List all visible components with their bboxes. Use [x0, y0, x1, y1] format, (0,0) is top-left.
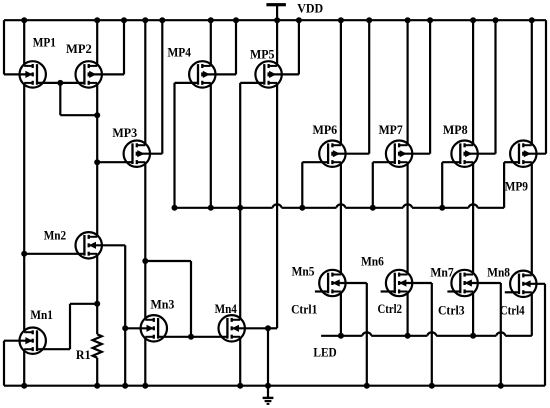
wire MP4 bulk to top rail — [203, 20, 236, 74]
wire MP5 bulk to top rail — [270, 20, 299, 74]
wire MP8 drain down to Mn7 drain — [472, 162, 474, 274]
svg-text:MP7: MP7 — [379, 123, 403, 137]
wire Mn4 bulk node to ground rail — [267, 328, 269, 385]
node Mn1 source on rail — [21, 383, 27, 389]
transistor Mn1 — [20, 328, 46, 354]
wire VDD top rail — [4, 19, 546, 21]
transistor Mn5 — [319, 270, 345, 296]
wire MP8 source to top rail — [472, 20, 474, 145]
transistor Mn2 — [76, 232, 102, 258]
node MP8 source on rail — [470, 17, 476, 23]
node MP3 gate tap — [94, 159, 100, 165]
svg-text:MP6: MP6 — [313, 123, 338, 137]
wire Mn1 gate to Mn2 source node — [37, 304, 97, 349]
node Mn2 gate tap — [21, 251, 27, 257]
svg-text:MP1: MP1 — [33, 36, 56, 50]
wire MP3 gate line — [97, 161, 132, 163]
wire Mn2 bulk down to bottom rail — [90, 245, 126, 385]
wire MP3 bulk to top rail — [138, 20, 163, 154]
node MP7 gate on bus — [370, 205, 376, 211]
wire MP2 bulk to top rail — [90, 20, 124, 74]
wire Mn6 bulk to bottom rail — [400, 283, 432, 386]
svg-text:LED: LED — [313, 346, 336, 360]
wire top-left corner to MP1 bulk — [4, 20, 32, 74]
wire MP3 drain down to Mn3 drain — [144, 162, 146, 320]
wire Mn6 ctrl2 gate stub — [381, 290, 395, 292]
wire Mn2 source down to R1 — [96, 254, 98, 334]
wire Mn3 diode tie to gate line — [145, 261, 191, 337]
transistor MP5 — [255, 61, 281, 87]
svg-text:Mn7: Mn7 — [430, 266, 453, 280]
wire MP6 bulk to top rail — [333, 20, 369, 154]
wire MP6 gate to bus — [302, 162, 328, 208]
wire MP9 source to top rail — [531, 20, 533, 145]
wire gate link right to MP2 drain — [60, 114, 97, 116]
wire MP1 source to top rail — [23, 20, 25, 66]
wire MP4 drain to bus — [210, 83, 212, 208]
svg-text:Mn4: Mn4 — [215, 302, 237, 316]
wire MP7 source to top rail — [407, 20, 409, 145]
transistor MP3 — [124, 141, 150, 167]
node R1 bottom on rail — [94, 383, 100, 389]
transistor MP1 — [20, 61, 46, 87]
node Mn4 bulk / MP5 drain — [265, 325, 271, 331]
node MP4 source on rail — [208, 17, 214, 23]
wire MP7 gate to bus — [373, 162, 395, 208]
node Mn3-Mn4 gate line — [188, 334, 194, 340]
wire Mn5 source to LED line — [340, 292, 342, 336]
svg-text:R1: R1 — [76, 348, 91, 362]
svg-text:MP9: MP9 — [505, 180, 528, 194]
resistor R1 — [93, 334, 102, 357]
node MP4 gate on bus — [172, 205, 178, 211]
transistor MP2 — [76, 61, 102, 87]
node Mn3 source on rail — [142, 383, 148, 389]
wire Mn8 source to LED line corner — [531, 292, 533, 336]
transistor MP9 — [510, 141, 536, 167]
svg-text:MP3: MP3 — [112, 126, 137, 140]
wire Mn3 source to bottom rail — [144, 337, 146, 386]
node Mn7 bulk on rail — [498, 383, 504, 389]
svg-text:MP8: MP8 — [443, 123, 468, 137]
wire Mn1 source to bottom rail — [23, 349, 25, 386]
transistor MP8 — [451, 141, 477, 167]
svg-text:Mn5: Mn5 — [292, 264, 315, 278]
node MP5 gate / Mn4 drain on bus — [237, 205, 243, 211]
wire MP9 drain down to Mn8 drain — [531, 162, 533, 275]
node Mn5 bulk on rail — [364, 383, 370, 389]
node Mn5 source on LED line — [338, 333, 344, 339]
wire R1 to bottom rail — [96, 358, 98, 386]
node MP3 bulk on rail — [159, 17, 165, 23]
svg-text:Mn1: Mn1 — [30, 308, 53, 322]
svg-text:Mn3: Mn3 — [151, 297, 175, 311]
ground symbol — [263, 386, 274, 404]
VDD supply symbol — [266, 3, 286, 20]
node MP8 bulk on rail — [493, 17, 499, 23]
wire Mn8 bulk to bottom-right corner — [524, 284, 545, 386]
node MP4 drain on bus — [208, 205, 214, 211]
wire ground bottom rail — [4, 385, 545, 387]
svg-text:Ctrl3: Ctrl3 — [438, 303, 465, 317]
svg-text:MP2: MP2 — [66, 42, 92, 56]
wire MP9 gate to bus end — [504, 162, 519, 208]
node MP2 bulk on rail — [121, 17, 127, 23]
wire Mn3 gate to Mn4 gate — [158, 336, 227, 338]
wire MP5 drain down to Mn4 bulk node — [268, 83, 277, 328]
node Mn3 bulk tap — [122, 325, 128, 331]
node Mn4 source on rail — [237, 383, 243, 389]
node MP8 gate on bus — [439, 205, 445, 211]
node MP9 source on rail — [529, 17, 535, 23]
svg-text:Mn2: Mn2 — [44, 229, 66, 243]
wire Mn7 ctrl3 gate stub — [447, 290, 460, 292]
node gate link — [57, 80, 63, 86]
svg-text:MP5: MP5 — [250, 48, 275, 62]
node Mn2 bulk chain on bottom rail — [122, 383, 128, 389]
wire MP5 source to top rail — [276, 20, 278, 66]
node MP7 bulk on rail — [427, 17, 433, 23]
node Mn7 source on LED line — [470, 333, 476, 339]
wire MP2 drain down to Mn2 drain — [96, 83, 98, 237]
wire MP2 source to top rail — [96, 20, 98, 66]
node MP6 bulk on rail — [366, 17, 372, 23]
node MP2 drain junction — [94, 112, 100, 118]
wire MP6 drain down to Mn5 drain — [340, 162, 342, 274]
transistor Mn3 — [141, 315, 167, 341]
node MP7 source on rail — [405, 17, 411, 23]
wire MP4 source to top rail — [210, 20, 212, 66]
node Mn6 source on LED line — [405, 333, 411, 339]
transistor Mn7 — [451, 270, 477, 296]
wire MP7 bulk to top rail — [400, 20, 430, 154]
wire MP5 gate to bus and Mn4 drain — [240, 83, 264, 320]
wire Mn5 ctrl1 gate stub — [315, 290, 328, 292]
wire Mn1 bulk to bottom-left corner — [4, 341, 32, 386]
wire gate link down — [59, 83, 61, 115]
node MP5 bulk on rail — [296, 17, 302, 23]
svg-text:Ctrl2: Ctrl2 — [378, 302, 403, 316]
node ground junction on rail — [265, 383, 271, 389]
node MP6 gate on bus — [299, 205, 305, 211]
node MP6 source on rail — [338, 17, 344, 23]
svg-text:MP4: MP4 — [168, 45, 192, 59]
node Mn3 drain-gate tie — [142, 258, 148, 264]
transistor Mn6 — [386, 270, 412, 296]
wire Mn7 source to LED line — [472, 292, 474, 336]
node MP1 source on rail — [21, 17, 27, 23]
wire MP8 gate to bus — [442, 162, 460, 208]
wire MP8 bulk to top rail — [466, 20, 496, 154]
wire middle bus — [175, 207, 273, 209]
wire Mn5 bulk to bottom rail — [333, 283, 366, 386]
node MP4 bulk on rail — [233, 17, 239, 23]
transistor MP6 — [319, 141, 345, 167]
transistor MP7 — [386, 141, 412, 167]
node MP5 source / VDD on rail — [274, 17, 280, 23]
wire Mn6 source to LED line — [407, 292, 409, 336]
transistor MP4 — [189, 61, 215, 87]
wire Mn4 source to bottom rail — [239, 337, 241, 386]
transistor Mn4 — [219, 315, 245, 341]
wire MP6 source to top rail — [340, 20, 342, 145]
wire MP9 bulk to top-right corner — [524, 20, 546, 154]
wire MP7 drain down to Mn6 drain — [407, 162, 409, 274]
svg-text:Mn6: Mn6 — [361, 254, 384, 268]
node Mn1 gate tap — [94, 301, 100, 307]
node MP2 source on rail — [94, 17, 100, 23]
wire Mn4 bulk lead — [233, 327, 268, 329]
svg-text:Ctrl4: Ctrl4 — [500, 304, 525, 318]
svg-text:VDD: VDD — [297, 2, 323, 16]
wire Mn7 bulk to bottom rail — [466, 283, 501, 386]
wire LED output line — [321, 335, 362, 337]
wire Mn8 ctrl4 gate stub — [505, 291, 519, 293]
transistor Mn8 — [510, 271, 536, 297]
wire Mn3 bulk lead — [125, 327, 153, 329]
svg-text:Ctrl1: Ctrl1 — [291, 303, 317, 317]
svg-text:Mn8: Mn8 — [487, 265, 510, 279]
node MP3 source on rail — [142, 17, 148, 23]
wire MP3 source to top rail — [144, 20, 146, 145]
wire Mn2 gate line — [24, 253, 84, 255]
wire MP1 gate to MP2 gate — [37, 82, 84, 84]
node Mn6 bulk on rail — [429, 383, 435, 389]
wire MP4 gate to bus — [175, 83, 199, 208]
wire MP1 drain down to Mn1 drain — [23, 83, 25, 332]
